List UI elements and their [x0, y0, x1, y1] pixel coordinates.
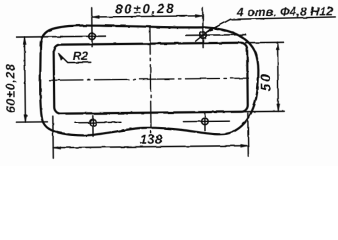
vertical centerline (dash-dot): [150, 28, 151, 133]
dimension 138 right arrowhead: [241, 144, 249, 147]
hole 2 top-right circle: [200, 32, 207, 39]
hole 4 bottom-right circle: [202, 118, 209, 125]
dimension 138 left arrowhead: [53, 146, 61, 149]
radius label R2 leader shelf: [59, 53, 91, 62]
svg-text:50: 50: [258, 72, 273, 91]
svg-text:138: 138: [140, 132, 163, 147]
dimension 80 right arrowhead: [195, 14, 203, 17]
dimension 60 top extension line: [17, 36, 63, 38]
radius label R2 arrowhead: [58, 53, 64, 61]
dimension 80 left arrowhead: [92, 15, 100, 18]
leader shelf under note: [230, 17, 335, 19]
dimension 50 bottom arrowhead: [277, 104, 280, 112]
dimension 50 top extension line: [246, 41, 284, 43]
hole 4 horizontal center mark: [183, 120, 229, 122]
hole 2 vertical center mark / extension line for 80 dim: [202, 8, 204, 48]
hole 3 horizontal center mark: [75, 121, 120, 123]
hole 4 vertical center mark: [204, 114, 206, 131]
blank sheet wavy outer contour: [40, 24, 259, 136]
dimension 138 line: [53, 146, 248, 148]
svg-text:60±0,28: 60±0,28: [3, 63, 18, 113]
dimension 60 top arrowhead: [23, 37, 26, 45]
dimension 138 right extension line: [247, 113, 249, 156]
hole 2 horizontal center mark: [186, 34, 246, 37]
svg-text:R2: R2: [73, 49, 89, 63]
part outline: rounded rectangle R2: [54, 43, 248, 114]
hole 1 horizontal center mark: [61, 35, 106, 37]
leader arrowhead at hole 2: [206, 28, 213, 33]
hole 1 top-left circle: [89, 33, 96, 40]
dimension 60 bottom arrowhead: [24, 115, 27, 123]
dimension 80±0,28 line: [92, 16, 203, 17]
dimension 60±0,28 line: [24, 37, 27, 122]
svg-text:80±0,28: 80±0,28: [115, 1, 175, 17]
hole 1 vertical center mark / extension line for 80 dim: [91, 8, 93, 47]
dimension 50 top arrowhead: [276, 42, 279, 50]
dimension 60 bottom extension line: [16, 121, 47, 123]
horizontal centerline (dash-dot): [49, 78, 248, 80]
leader slash through hole 2: [195, 29, 210, 41]
dimension 138 left extension line: [52, 116, 54, 158]
dimension 50 bottom extension line: [239, 110, 284, 112]
leader line to hole 2: [207, 19, 231, 31]
hole 3 vertical center mark: [92, 116, 94, 136]
dimension 50 line: [277, 42, 280, 111]
hole 3 bottom-left circle: [90, 119, 97, 126]
